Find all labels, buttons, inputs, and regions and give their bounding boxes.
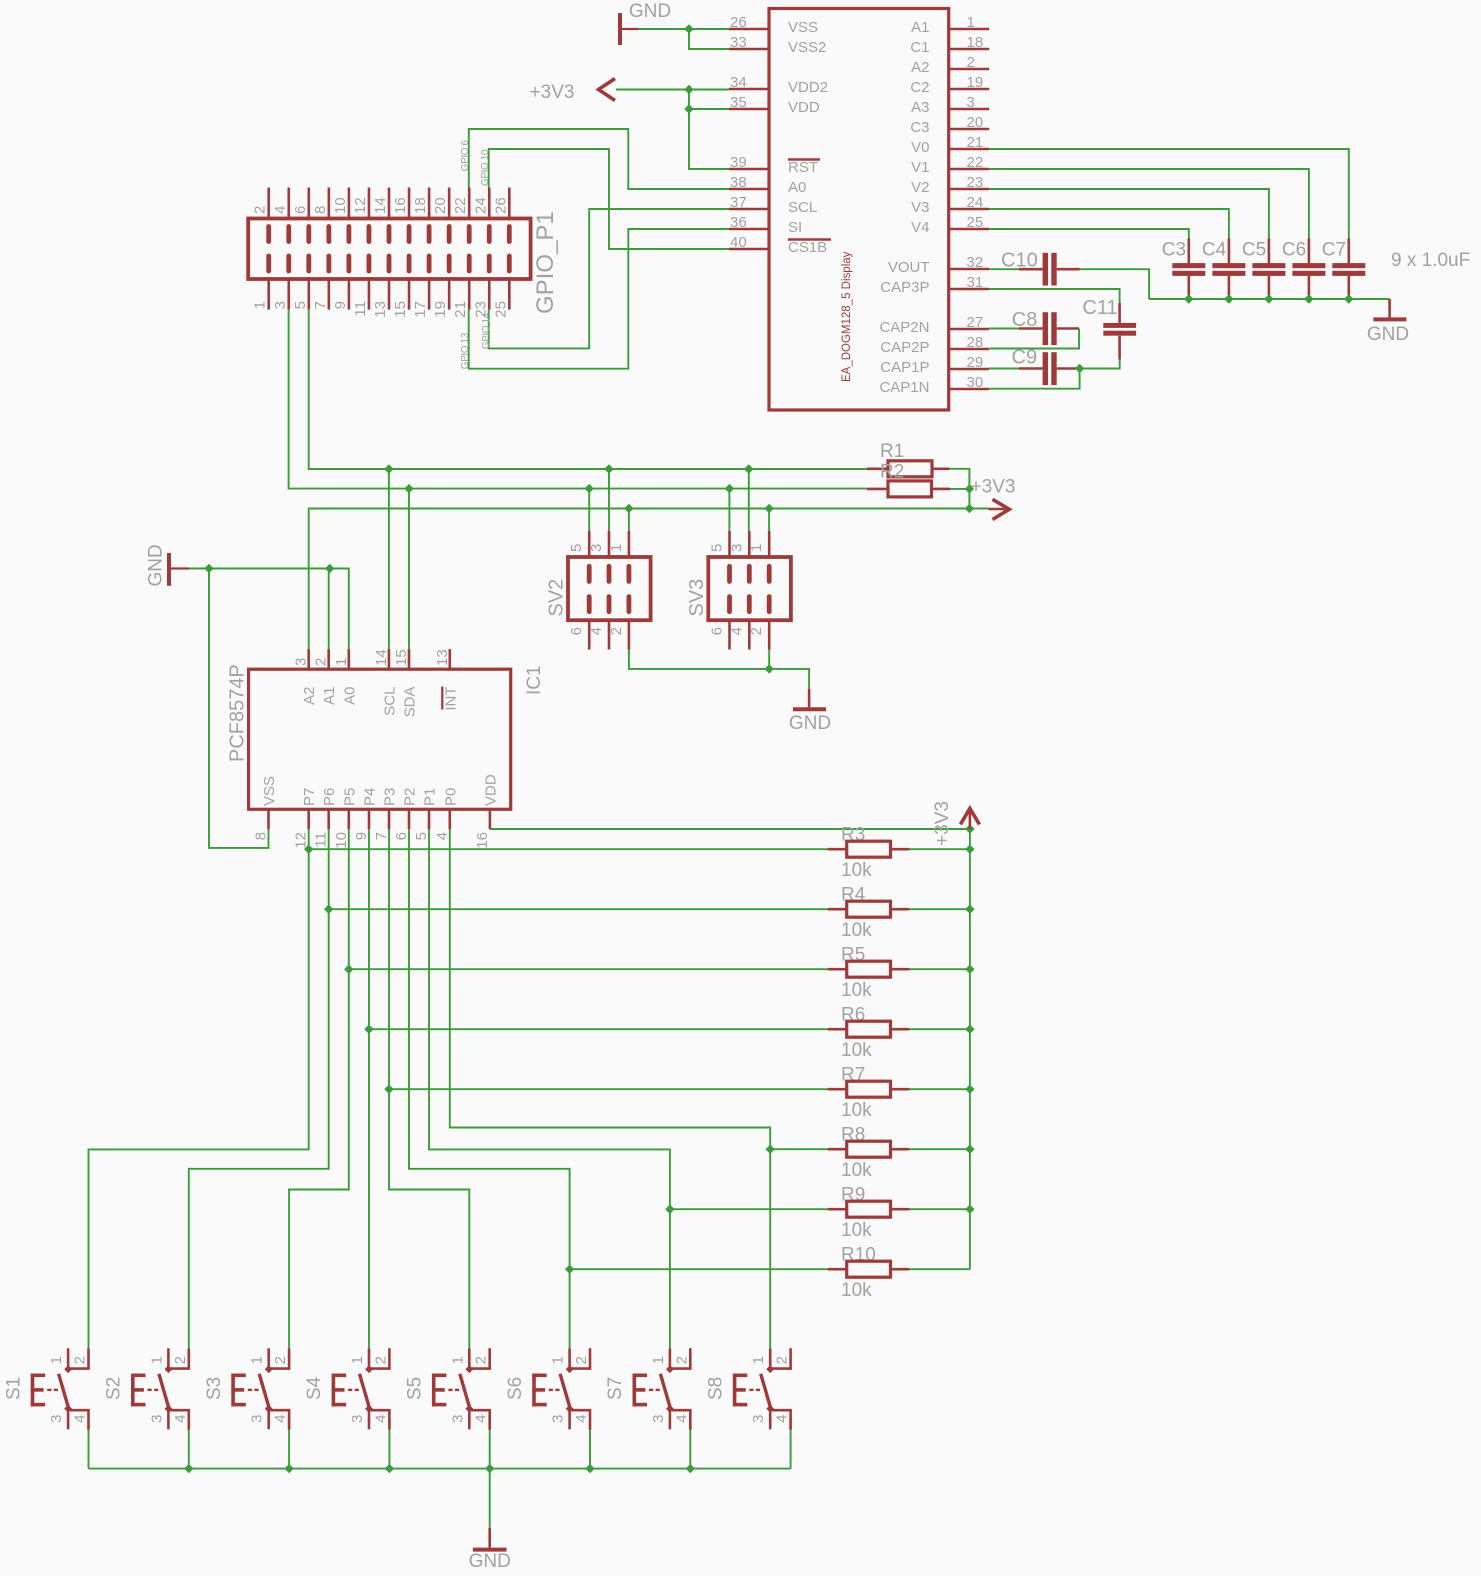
SV3 pin 1 (top) [768,531,771,557]
junction R9 left [665,1205,674,1214]
display pin 28 CAP2P [949,348,990,351]
display pin 35 VDD [729,108,769,111]
svg-text:CAP2N: CAP2N [879,319,929,336]
junction GND rail S7 [686,1464,695,1473]
svg-text:3: 3 [449,1415,466,1423]
svg-text:37: 37 [730,194,747,211]
svg-text:GPIO 10: GPIO 10 [480,149,491,186]
svg-text:GPIO 14: GPIO 14 [481,312,492,349]
svg-text:10k: 10k [841,1040,872,1061]
display pin 34 VDD2 [729,88,769,91]
S1 pin 2 [70,1348,89,1368]
svg-text:GPIO 6: GPIO 6 [460,140,471,172]
IC IC1 PCF8574P (box) [249,669,511,809]
svg-text:VDD: VDD [482,774,499,806]
svg-text:3: 3 [728,544,745,552]
ground symbol GND (below SV3) [808,689,811,707]
svg-text:C5: C5 [1242,240,1266,261]
wire SV2 pin2 / SV3 pin2 to GND [629,650,809,690]
junction SCL to SV3 [744,464,753,473]
svg-text:16: 16 [474,832,491,849]
svg-text:26: 26 [730,14,747,31]
svg-text:2: 2 [673,1356,690,1364]
svg-text:GND: GND [146,544,167,586]
svg-text:V4: V4 [911,219,929,236]
junction +3V3 to SV2 [624,504,633,513]
S2 pin 4 [170,1410,189,1430]
IC1 pin 11 P6 (bottom) [327,809,330,829]
S5 pin 3 [468,1409,471,1430]
svg-text:A0: A0 [341,687,358,705]
SV3 pin 5 (top) [728,531,731,557]
svg-text:10k: 10k [841,920,872,941]
GPIO_P1 pin 22 (top) [468,188,471,219]
junction R7 left [384,1085,393,1094]
svg-text:14: 14 [373,649,390,666]
S4 pin 3 [368,1409,371,1430]
SV2 pin 6 (bottom) [588,620,591,649]
switch S8 (pushbutton) [733,1374,737,1407]
IC1 pin 14 SCL (top) [388,649,391,669]
svg-text:4: 4 [573,1415,590,1423]
junction R10 left [565,1265,574,1274]
svg-text:39: 39 [730,154,747,171]
svg-text:30: 30 [967,374,984,391]
junction SDA to SV3 [725,484,734,493]
svg-text:27: 27 [967,314,984,331]
IC1 pin 3 A2 (top) [307,649,310,669]
svg-text:VDD: VDD [788,99,820,116]
svg-text:5: 5 [709,544,726,552]
IC module EA_DOGM128_5 Display (box) [769,9,949,411]
svg-text:C2: C2 [910,79,929,96]
svg-text:+3V3: +3V3 [971,477,1016,498]
GPIO_P1 pin 26 (top) [508,188,511,219]
svg-text:V1: V1 [911,159,929,176]
svg-text:C1: C1 [910,39,929,56]
junction C5 GND [1264,294,1273,303]
S4 pin 1 [368,1348,371,1369]
svg-text:P4: P4 [362,788,379,806]
svg-text:3: 3 [967,94,975,111]
ground symbol GND (bottom) [489,1469,491,1528]
GPIO_P1 pin 9 (bottom) [348,279,351,310]
junction R5 left [344,965,353,974]
power symbol +3V3 (up arrow) [969,810,972,830]
S7 pin 1 [669,1348,672,1369]
svg-text:4: 4 [172,1415,189,1423]
IC1 pin 2 A1 (top) [327,649,330,669]
display pin 1 A1 [949,28,990,31]
wire switch GND rail [89,1468,791,1470]
svg-text:6: 6 [568,627,585,635]
wire S2 pin4 to GND rail [188,1430,190,1469]
svg-text:26: 26 [492,197,509,214]
svg-text:GND: GND [469,1551,511,1572]
wire S5 pin4 to GND rail [489,1430,491,1469]
svg-text:C11: C11 [1082,297,1117,319]
svg-text:6: 6 [393,832,410,840]
svg-text:1: 1 [48,1356,65,1364]
svg-text:CAP1P: CAP1P [880,359,929,376]
svg-text:S1: S1 [3,1377,24,1400]
S6 pin 4 [571,1410,590,1430]
svg-text:C7: C7 [1322,240,1346,261]
svg-text:15: 15 [392,301,409,318]
GPIO_P1 pin 17 (bottom) [428,279,431,310]
svg-text:S5: S5 [405,1377,426,1400]
junction R3 left [304,845,313,854]
GPIO_P1 pin 6 (top) [307,188,310,219]
svg-text:25: 25 [492,301,509,318]
wire GPIO 13: GPIO_P1 pin21 to display SI (36) [469,229,729,369]
wire C9 right to display CAP1N pin30 [989,369,1079,389]
wire +3V3 rail vertical (right of resistors) [969,829,971,1269]
wire +3V3 to display VDD2/VDD/RST [616,89,729,91]
display pin 25 V4 [949,228,990,231]
junction rail R5 [965,965,974,974]
svg-text:32: 32 [967,254,984,271]
wire GPIO 14: GPIO_P1 pin23 to display SCL (37) [489,209,729,348]
switch S5 (pushbutton) [432,1374,436,1407]
svg-text:4: 4 [473,1415,490,1423]
svg-text:CS1B: CS1B [788,239,827,256]
svg-text:3: 3 [349,1415,366,1423]
wire GPIO 6: GPIO_P1 pin22 to display A0 (38) [469,129,729,189]
display pin 24 V3 [949,208,990,211]
junction GND rail S2 [184,1464,193,1473]
svg-text:20: 20 [432,197,449,214]
wire S7 pin4 to GND rail [689,1430,691,1469]
svg-text:P2: P2 [402,788,419,806]
IC1 pin 6 P2 (bottom) [408,809,411,829]
GPIO_P1 pin 13 (bottom) [388,279,391,310]
SV2 pin 3 (top) [608,531,611,557]
junction rail R9 [965,1205,974,1214]
wire display V-pin to C7 [989,149,1349,239]
display pin 20 C3 [949,128,990,131]
junction SCL to IC1 [384,464,393,473]
switch S6 (pushbutton) [532,1374,536,1407]
wire P1 (IC1 pin5) to S7 [429,829,670,1348]
svg-text:4: 4 [272,206,289,214]
GPIO_P1 pin 4 (top) [287,188,290,219]
svg-text:5: 5 [568,544,585,552]
display pin 40 CS1B [729,248,769,251]
svg-text:S8: S8 [705,1377,726,1400]
S6 pin 3 [568,1409,571,1430]
svg-text:19: 19 [432,301,449,318]
svg-text:SV2: SV2 [546,579,568,617]
svg-text:14: 14 [372,197,389,214]
svg-text:A1: A1 [911,19,929,36]
display pin 22 V1 [949,168,990,171]
IC1 pin 10 P5 (bottom) [347,809,350,829]
ground symbol GND (top left) [618,13,622,45]
svg-text:2: 2 [774,1356,791,1364]
ground symbol GND (top right) [1388,299,1391,317]
S5 pin 4 [471,1410,490,1430]
svg-text:V2: V2 [911,179,929,196]
svg-text:3: 3 [249,1415,266,1423]
svg-text:5: 5 [413,832,430,840]
S7 pin 4 [672,1410,691,1430]
SV3 pin 2 (bottom) [768,620,771,649]
svg-text:SCL: SCL [788,199,817,216]
svg-text:GND: GND [629,1,671,22]
svg-text:S4: S4 [304,1376,325,1400]
svg-text:3: 3 [550,1415,567,1423]
svg-text:SI: SI [788,219,802,236]
GPIO_P1 pin 11 (bottom) [368,279,371,310]
ground symbol GND (left of IC1) [167,553,171,586]
svg-text:SV3: SV3 [686,579,708,617]
IC1 pin 1 A0 (top) [347,649,350,669]
wire P0 (IC1 pin4) to S8 [450,829,770,1348]
svg-text:7: 7 [373,832,390,840]
wire +3V3 to SV2 pin1 [628,509,630,532]
junction C9 right [1075,364,1084,373]
svg-text:35: 35 [730,94,747,111]
S2 pin 3 [167,1409,170,1430]
svg-text:VDD2: VDD2 [788,79,828,96]
wire GND to display VSS pins 26/33 [639,28,730,30]
svg-text:11: 11 [313,832,330,848]
wire S3 pin4 to GND rail [288,1430,290,1469]
junction VDD2 net [684,85,693,94]
wire capacitor GND rail [1149,298,1390,300]
switch S7 (pushbutton) [632,1374,636,1407]
svg-text:33: 33 [730,34,747,51]
S3 pin 4 [270,1410,289,1430]
junction GND rail S5 [485,1464,494,1473]
svg-text:3: 3 [148,1415,165,1423]
GPIO_P1 pin 16 (top) [408,188,411,219]
S5 pin 2 [471,1348,490,1368]
display pin 29 CAP1P [949,368,990,371]
svg-text:4: 4 [588,627,605,635]
S1 pin 1 [67,1348,70,1369]
wire +3V3 to SV3 pin1 [768,509,770,532]
svg-text:VSS: VSS [261,776,278,806]
svg-text:1: 1 [608,544,625,552]
svg-text:13: 13 [434,649,451,666]
display pin 32 VOUT [949,268,990,271]
svg-text:P5: P5 [341,788,358,806]
S8 pin 4 [772,1410,791,1430]
svg-text:A2: A2 [911,59,929,76]
svg-text:A1: A1 [321,687,338,705]
GPIO_P1 pin 20 (top) [448,188,451,219]
svg-text:1: 1 [449,1356,466,1364]
svg-text:10k: 10k [841,1160,872,1181]
svg-text:9: 9 [332,301,349,309]
junction C6 GND [1304,294,1313,303]
wire IC1 VDD pin16 to +3V3 [490,828,970,830]
GPIO_P1 pin 10 (top) [348,188,351,219]
S3 pin 1 [267,1348,270,1369]
junction VSS net [684,24,693,33]
wire SCL to SV2 pin3 [608,469,610,531]
junction R2/+3V3 [965,484,974,493]
IC1 pin 9 P4 (bottom) [368,809,371,829]
GPIO_P1 pin 14 (top) [388,188,391,219]
GPIO_P1 pin 24 (top) [488,188,491,219]
svg-text:19: 19 [967,74,984,91]
svg-text:4: 4 [434,832,451,840]
svg-text:3: 3 [293,658,310,666]
display pin 31 CAP3P [949,288,990,291]
svg-text:GPIO_P1: GPIO_P1 [532,211,559,314]
wire SDA to SV2 pin5 [588,489,590,531]
svg-text:2: 2 [372,1356,389,1364]
svg-text:1: 1 [550,1356,567,1364]
display pin 21 V0 [949,148,990,151]
svg-text:EA_DOGM128_5 Display: EA_DOGM128_5 Display [841,251,853,382]
display pin 3 A3 [949,108,990,111]
svg-text:S2: S2 [104,1377,125,1400]
svg-text:1: 1 [349,1356,366,1364]
svg-text:10: 10 [333,832,350,849]
junction VDD/+3V3 rail [965,824,974,833]
svg-text:A0: A0 [788,179,806,196]
junction +3V3 R1/R2 [965,504,974,513]
S3 pin 2 [270,1348,289,1368]
svg-text:C9: C9 [1012,347,1038,369]
svg-text:21: 21 [452,301,469,318]
wire C9 right to C11 bottom [1080,360,1120,369]
S6 pin 2 [571,1348,590,1368]
svg-text:CAP3P: CAP3P [880,279,929,296]
connector SV3 (box) [708,557,791,620]
junction C4 GND [1224,294,1233,303]
svg-text:C3: C3 [910,119,929,136]
svg-text:2: 2 [473,1356,490,1364]
wire GND down to VSS pin8 [209,569,269,848]
IC1 pin 8 VSS (bottom) [267,809,270,829]
svg-text:S3: S3 [204,1377,225,1400]
svg-text:2: 2 [313,658,330,666]
svg-text:24: 24 [967,194,984,211]
junction SDA to IC1 [404,484,413,493]
IC1 pin 5 P1 (bottom) [428,809,431,829]
svg-text:2: 2 [608,627,625,635]
GPIO_P1 pin 25 (bottom) [508,279,511,310]
svg-text:38: 38 [730,174,747,191]
svg-text:P3: P3 [382,788,399,806]
SV3 pin 4 (bottom) [748,620,751,649]
S8 pin 3 [769,1409,772,1430]
svg-text:3: 3 [650,1415,667,1423]
wire P2 (IC1 pin6) to S6 [409,829,570,1348]
junction rail R7 [965,1085,974,1094]
wire S4 pin4 to GND rail [388,1430,390,1469]
switch S3 (pushbutton) [231,1374,235,1407]
S4 pin 4 [371,1410,390,1430]
wire C10 right to GND rail [1080,269,1149,299]
svg-text:10k: 10k [841,1280,872,1301]
svg-text:+3V3: +3V3 [530,82,575,103]
GPIO_P1 pin 5 (bottom) [307,279,310,310]
svg-text:9: 9 [353,832,370,840]
GPIO_P1 pin 23 (bottom) [488,279,491,310]
display pin 18 C1 [949,48,990,51]
svg-text:10: 10 [332,197,349,214]
svg-text:10k: 10k [841,980,872,1001]
svg-text:1: 1 [650,1356,667,1364]
svg-text:C3: C3 [1162,240,1186,261]
wire display V-pin to C3 [989,229,1189,239]
junction GND rail S6 [585,1464,594,1473]
svg-text:6: 6 [709,627,726,635]
wire GND to IC1 pin1 A0 [348,569,350,650]
S1 pin 3 [67,1409,70,1430]
IC1 pin 7 P3 (bottom) [388,809,391,829]
display pin 27 CAP2N [949,328,990,331]
junction VDD net [684,104,693,113]
junction rail R4 [965,905,974,914]
junction R6 left [364,1025,373,1034]
svg-text:36: 36 [730,214,747,231]
svg-text:C6: C6 [1282,240,1306,261]
svg-text:GND: GND [789,713,831,734]
svg-text:R1: R1 [880,441,904,462]
svg-text:29: 29 [967,354,984,371]
S6 pin 1 [568,1348,571,1369]
GPIO_P1 pin 19 (bottom) [448,279,451,310]
svg-text:SCL: SCL [381,687,398,716]
connector SV2 (box) [568,557,651,620]
S3 pin 3 [267,1409,270,1430]
wire R1/R2 right to +3V3 [949,469,969,509]
svg-text:24: 24 [472,197,489,214]
S8 pin 2 [772,1348,791,1368]
svg-text:4: 4 [673,1415,690,1423]
IC1 pin 4 P0 (bottom) [448,809,451,829]
IC1 pin 15 SDA (top) [408,649,411,669]
SV2 pin 1 (top) [628,531,631,557]
svg-text:1: 1 [967,14,975,31]
switch S4 (pushbutton) [332,1374,336,1407]
svg-text:CAP1N: CAP1N [879,379,929,396]
display pin 33 VSS2 [729,48,769,51]
svg-text:5: 5 [292,301,309,309]
svg-text:20: 20 [967,114,984,131]
IC1 pin 13 INT (top) [448,649,451,669]
GPIO_P1 pin 7 (bottom) [328,279,331,310]
svg-text:15: 15 [393,649,410,666]
svg-text:VOUT: VOUT [888,259,930,276]
junction C7 GND [1344,294,1353,303]
GPIO_P1 pin 18 (top) [428,188,431,219]
svg-text:1: 1 [333,658,350,666]
switch S2 (pushbutton) [131,1374,135,1407]
connector GPIO_P1 (box) [248,219,530,280]
wire S8 pin4 to GND rail [790,1430,792,1469]
svg-text:4: 4 [272,1415,289,1423]
svg-text:28: 28 [967,334,984,351]
svg-text:3: 3 [48,1415,65,1423]
svg-text:10k: 10k [841,1100,872,1121]
svg-text:1: 1 [750,1356,767,1364]
svg-text:10k: 10k [841,1220,872,1241]
svg-text:13: 13 [372,301,389,318]
svg-text:2: 2 [967,54,975,71]
S2 pin 1 [167,1348,170,1369]
svg-text:A2: A2 [301,687,318,705]
display pin 19 C2 [949,88,990,91]
switch S1 (pushbutton) [31,1374,35,1407]
